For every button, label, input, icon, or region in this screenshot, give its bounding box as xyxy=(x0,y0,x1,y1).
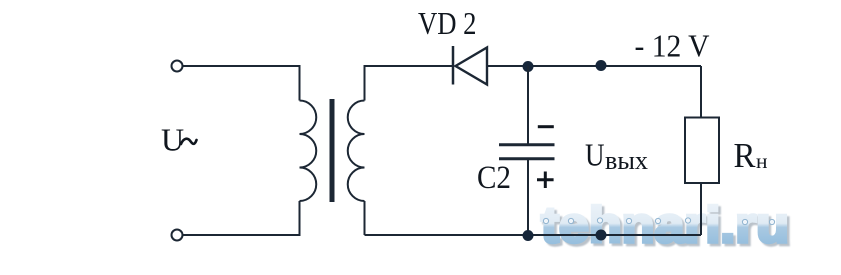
svg-text:tehnari.ru: tehnari.ru xyxy=(541,197,789,253)
terminal (input bottom) xyxy=(172,230,183,241)
junction dot bottom right xyxy=(596,230,607,241)
diode VD2 triangle xyxy=(456,48,488,85)
wire capacitor branch top xyxy=(527,66,529,144)
wire secondary top xyxy=(365,66,454,101)
capacitor C2 top plate xyxy=(499,143,555,146)
tilde of U~ xyxy=(181,139,197,144)
wire input top xyxy=(183,66,300,101)
resistor Rn body xyxy=(685,118,719,184)
wire bottom rail xyxy=(365,234,702,236)
wire secondary bottom xyxy=(364,201,366,235)
wire resistor top xyxy=(700,66,702,118)
diode VD2 cathode bar xyxy=(452,46,455,85)
transformer T1 core xyxy=(330,99,335,202)
wire top rail xyxy=(487,65,701,67)
svg-text:U: U xyxy=(161,122,184,158)
svg-text:вых: вых xyxy=(605,146,648,175)
transformer T1 primary winding xyxy=(300,101,317,202)
transformer T1 secondary winding xyxy=(348,101,365,202)
junction dot top left xyxy=(523,61,534,72)
svg-text:VD 2: VD 2 xyxy=(418,5,477,41)
terminal (input top) xyxy=(172,61,183,72)
svg-text:R: R xyxy=(734,136,757,175)
svg-text:U: U xyxy=(585,136,605,172)
svg-text:н: н xyxy=(756,149,768,173)
capacitor C2 bottom plate xyxy=(499,157,555,160)
capacitor plus sign xyxy=(537,172,554,189)
wire resistor bottom xyxy=(700,183,702,235)
wire capacitor branch bottom xyxy=(527,159,529,235)
junction dot bottom left xyxy=(523,230,534,241)
junction dot top right xyxy=(596,60,607,71)
watermark tehnari.ru xyxy=(541,197,789,253)
capacitor minus sign xyxy=(538,125,554,128)
svg-text:C2: C2 xyxy=(477,160,511,196)
wire input bottom xyxy=(183,201,300,235)
svg-text:- 12 V: - 12 V xyxy=(635,28,710,64)
